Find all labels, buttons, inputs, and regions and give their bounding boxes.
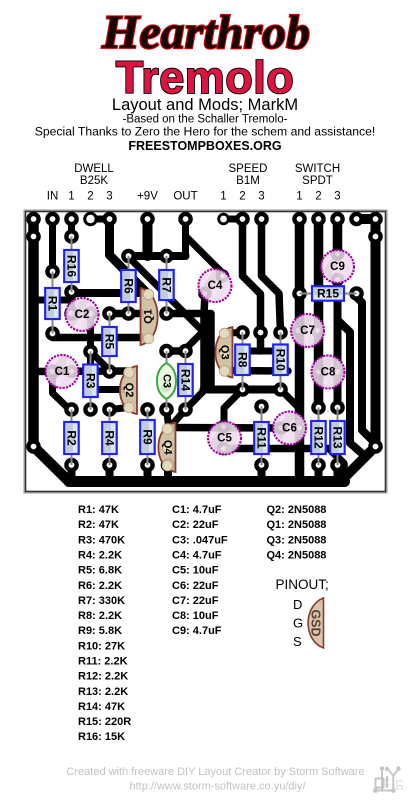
svg-text:SPEED: SPEED: [229, 163, 268, 175]
svg-text:C8: C8: [321, 367, 336, 379]
node R5 top junction pad: [102, 306, 117, 321]
resistor R11: [254, 407, 269, 466]
wire C9 bottom chain: [334, 280, 342, 408]
wire R8 bottom diagonal to C5 top: [224, 390, 243, 425]
svg-text:+9V: +9V: [137, 191, 158, 203]
svg-text:C3: .047uF: C3: .047uF: [172, 534, 228, 546]
node R12 R13 top pads: [311, 400, 326, 415]
transistor Q4: [158, 423, 175, 473]
svg-text:R5: R5: [103, 334, 117, 350]
svg-text:Q3: 2N5088: Q3: 2N5088: [267, 534, 327, 546]
svg-text:C5: C5: [217, 433, 232, 445]
node R6 R7 top pads: [121, 249, 136, 264]
svg-text:1: 1: [296, 191, 302, 203]
svg-text:C1: 4.7uF: C1: 4.7uF: [172, 504, 222, 516]
capacitor C5: [208, 422, 241, 455]
svg-text:C7: C7: [300, 325, 315, 337]
node C4 pads: [216, 269, 230, 283]
svg-text:Layout and Mods; MarkM: Layout and Mods; MarkM: [112, 96, 298, 114]
svg-text:SWITCH: SWITCH: [295, 163, 340, 175]
wire R6 top long diagonal: [129, 257, 204, 332]
wire dwell pads 2-3: [91, 216, 110, 223]
wire OUT down: [182, 219, 189, 256]
svg-text:R3: 470K: R3: 470K: [78, 534, 125, 546]
svg-text:G: G: [293, 616, 303, 631]
wire bottom stub to ground bus: [106, 465, 114, 477]
wire C5 bottom to lower right: [224, 449, 345, 478]
svg-text:FREESTOMPBOXES.ORG: FREESTOMPBOXES.ORG: [128, 139, 281, 153]
svg-text:2: 2: [239, 191, 245, 203]
svg-text:Special Thanks to Zero the Her: Special Thanks to Zero the Hero for the …: [35, 125, 376, 139]
svg-text:Q4: Q4: [162, 440, 174, 456]
wire Q3 bottom under R8 R10: [224, 367, 288, 375]
svg-text:C5: 10uF: C5: 10uF: [172, 565, 219, 577]
wire ground row to C1 Q2: [34, 367, 130, 375]
wire R14 bottom diagonal up: [186, 391, 204, 410]
wire right rail from switch pads: [357, 219, 376, 447]
svg-text:R4: 2.2K: R4: 2.2K: [78, 550, 122, 562]
svg-text:R6: 2.2K: R6: 2.2K: [78, 580, 122, 592]
wire +9V feed: [143, 219, 153, 256]
resistor R15: [300, 286, 357, 301]
svg-text:2: 2: [87, 191, 93, 203]
node row pads at 409: [64, 402, 79, 417]
wire R3 top under box to Q2 mid: [91, 352, 130, 390]
svg-text:Created with freeware DIY Layo: Created with freeware DIY Layout Creator…: [66, 766, 364, 778]
wire R14 bottom to Q4 top: [170, 410, 186, 428]
node C1 pads: [45, 364, 60, 379]
resistor R2: [64, 410, 79, 466]
svg-text:R8: 2.2K: R8: 2.2K: [78, 610, 122, 622]
svg-text:R8: R8: [236, 352, 250, 368]
transistor Q1: [141, 288, 158, 345]
wire C9 jog to lower right: [338, 320, 367, 457]
svg-text:R16: R16: [65, 255, 79, 277]
wire C2 right to R3 top: [87, 314, 94, 352]
wire speed2 down to T junction: [243, 219, 261, 351]
svg-text:2: 2: [315, 191, 321, 203]
svg-text:R11: 2.2K: R11: 2.2K: [78, 656, 128, 668]
svg-text:Q2: Q2: [123, 383, 135, 398]
capacitor C8: [312, 356, 345, 389]
svg-text:R12: 2.2K: R12: 2.2K: [78, 671, 128, 683]
svg-text:R6: R6: [122, 278, 136, 294]
svg-text:R4: R4: [103, 430, 117, 446]
svg-text:Q1: Q1: [143, 309, 155, 324]
resistor R1: [45, 272, 60, 334]
svg-text:C6: 22uF: C6: 22uF: [172, 580, 219, 592]
wire dwell 3 to Q1 top: [110, 219, 148, 294]
svg-text:1: 1: [68, 191, 74, 203]
wire R1 bottom to Q1 bottom: [53, 334, 148, 338]
svg-text:OUT: OUT: [173, 191, 197, 203]
svg-text:Q4: 2N5088: Q4: 2N5088: [267, 550, 327, 562]
svg-text:S: S: [293, 634, 302, 649]
node T junction pad: [253, 325, 268, 340]
wire R10 bottom diagonal: [281, 390, 300, 409]
wire R5top R6bottom Q1mid row: [110, 310, 148, 318]
svg-text:R10: R10: [274, 349, 288, 371]
wire C3top junction diagonal: [186, 332, 204, 350]
svg-text:C1: C1: [55, 366, 70, 378]
wire OUT diagonal to C4: [186, 236, 223, 273]
node R15 pads: [292, 286, 307, 301]
resistor R7: [159, 256, 174, 314]
resistor R14: [178, 351, 193, 410]
resistor R8: [235, 333, 250, 390]
svg-text:C9: C9: [330, 261, 345, 273]
node C9 pads: [331, 247, 345, 261]
node C3 top pad: [159, 344, 174, 359]
wire speed3 to R10 top: [262, 219, 281, 333]
svg-text:GSD: GSD: [309, 609, 323, 636]
capacitor C1: [46, 355, 79, 388]
resistor R9: [140, 410, 155, 466]
node corner pads: [26, 439, 41, 454]
wire R15 right to corner pad: [357, 297, 374, 442]
node R10 top pad: [273, 325, 288, 340]
node C6 pads: [274, 421, 288, 435]
wire Q4 top to C5 to C6: [169, 424, 281, 432]
wire Q4 bottom stub: [164, 465, 172, 477]
svg-text:R1: 47K: R1: 47K: [78, 504, 119, 516]
wire bottom stub to ground bus: [68, 465, 76, 477]
svg-text:PINOUT;: PINOUT;: [276, 577, 329, 592]
wire C4 bottom down: [204, 294, 205, 390]
svg-text:C6: C6: [282, 423, 297, 435]
svg-text:C4: C4: [208, 280, 223, 292]
node R3 top pad: [83, 344, 98, 359]
wire Q3 mid stub: [211, 348, 225, 356]
svg-text:R2: R2: [65, 430, 79, 446]
wire ground bus bottom: [69, 476, 345, 487]
wire bottom stub to ground bus: [334, 465, 342, 477]
wire C3 top to R14 top: [167, 347, 186, 355]
capacitor C3: [157, 351, 176, 410]
resistor R3: [83, 352, 98, 410]
svg-text:1: 1: [220, 191, 226, 203]
wire C3 bottom to Q4 top: [167, 410, 169, 427]
wire R6top-R7top-OUT junction row: [129, 252, 186, 260]
wire switch3 to C9: [333, 219, 343, 254]
capacitor C2: [66, 298, 99, 331]
node R16 bottom pad: [64, 285, 79, 300]
wire speed1-speed2 top: [224, 216, 243, 223]
wire bottom stub to ground bus: [315, 465, 323, 477]
wire rail to R16 bottom junction: [34, 297, 72, 304]
wire Q2 bottom to R4 top: [111, 408, 128, 410]
wire ground rail left: [34, 219, 70, 482]
wire R7 bottom elbow down: [167, 314, 212, 390]
svg-text:R9: 5.8K: R9: 5.8K: [78, 625, 122, 637]
svg-text:3: 3: [258, 191, 264, 203]
wire R16 bottom to C2 left: [68, 292, 75, 314]
svg-text:IN: IN: [47, 191, 59, 203]
wire R8 R10 bottom row: [204, 386, 281, 394]
svg-text:R15: 220R: R15: 220R: [78, 716, 131, 728]
footer DIY logo: [376, 770, 399, 791]
resistor R16: [64, 237, 79, 293]
svg-text:http://www.storm-software.co.y: http://www.storm-software.co.yu/diy/: [129, 781, 306, 793]
node C8 pads: [312, 365, 326, 379]
svg-text:R16: 15K: R16: 15K: [78, 731, 125, 743]
node R7 bottom pad: [159, 306, 174, 321]
svg-text:B1M: B1M: [236, 175, 260, 187]
node R11 top pad: [254, 399, 269, 414]
wire C1 left down to R2: [53, 372, 70, 410]
node bottom row pads: [64, 458, 79, 473]
transistor Q2: [120, 366, 137, 414]
node R6 bottom pad: [121, 306, 136, 321]
transistor Q3: [215, 327, 232, 378]
svg-text:C9: 4.7uF: C9: 4.7uF: [172, 625, 222, 637]
svg-text:R13: 2.2K: R13: 2.2K: [78, 686, 128, 698]
capacitor C4: [199, 269, 232, 302]
wire bottom stub to ground bus: [144, 465, 152, 477]
wire bottom-right diagonal to ground bus: [346, 447, 376, 477]
node C2 pads: [64, 306, 79, 321]
capacitor C9: [321, 250, 354, 283]
PCB board outline: [24, 210, 387, 493]
wire pad1 to R16: [68, 219, 75, 237]
svg-text:LC: LC: [395, 780, 404, 790]
svg-text:R14: R14: [179, 369, 193, 391]
wire bottom stub to ground bus: [258, 465, 266, 477]
capacitor C6: [273, 412, 306, 445]
svg-text:D: D: [293, 597, 302, 612]
svg-text:R9: R9: [141, 429, 155, 445]
wire Q3 top stub: [226, 329, 243, 337]
svg-text:C2: 22uF: C2: 22uF: [172, 519, 219, 531]
wire T bar under R8 R10: [250, 348, 274, 355]
resistor R5: [102, 314, 117, 372]
wire switch2 rail down: [314, 219, 324, 408]
node second row pads: [26, 229, 41, 244]
svg-text:3: 3: [334, 191, 340, 203]
svg-text:R3: R3: [84, 373, 98, 389]
node top connection pads row: [26, 212, 41, 227]
svg-text:R1: R1: [46, 296, 60, 312]
wire IN to R1: [49, 219, 56, 272]
pinout transistor side view: [308, 598, 323, 648]
svg-text:Q3: Q3: [219, 345, 231, 360]
node R5 bottom junction pad: [102, 364, 117, 379]
wire R16 bottom to Q1 top: [72, 289, 148, 297]
svg-text:R13: R13: [331, 426, 345, 448]
node C5 pads: [217, 420, 231, 434]
wire switch1 rail down: [295, 219, 305, 479]
resistor R6: [121, 256, 136, 314]
svg-text:C2: C2: [75, 309, 90, 321]
svg-text:R2: 47K: R2: 47K: [78, 519, 119, 531]
node C7 pads: [291, 323, 306, 338]
node R8 top pad: [235, 325, 250, 340]
svg-text:3: 3: [106, 191, 112, 203]
svg-text:C7: 22uF: C7: 22uF: [172, 595, 219, 607]
node R8 R10 bottom pads: [235, 382, 250, 397]
svg-text:C8: 10uF: C8: 10uF: [172, 610, 219, 622]
svg-text:Q1: 2N5088: Q1: 2N5088: [267, 519, 327, 531]
svg-text:R12: R12: [312, 426, 326, 448]
svg-text:R14: 47K: R14: 47K: [78, 701, 125, 713]
svg-text:R7: 330K: R7: 330K: [78, 595, 125, 607]
resistor R10: [273, 333, 288, 390]
resistor R12: [311, 408, 326, 466]
svg-text:DWELL: DWELL: [74, 163, 114, 175]
svg-text:R5: 6.8K: R5: 6.8K: [78, 565, 122, 577]
svg-text:R7: R7: [160, 277, 174, 293]
capacitor C7: [291, 314, 324, 347]
svg-text:R11: R11: [255, 427, 269, 449]
resistor R13: [330, 408, 345, 466]
svg-text:C4: 4.7uF: C4: 4.7uF: [172, 550, 222, 562]
svg-text:B25K: B25K: [80, 175, 108, 187]
node R14 top pad: [178, 344, 193, 359]
svg-text:R10: 27K: R10: 27K: [78, 640, 125, 652]
svg-text:R15: R15: [317, 287, 339, 301]
resistor R4: [102, 410, 117, 466]
node R1 pads: [45, 264, 60, 279]
svg-text:Q2: 2N5088: Q2: 2N5088: [267, 504, 327, 516]
svg-text:SPDT: SPDT: [302, 175, 333, 187]
svg-text:C3: C3: [161, 374, 173, 388]
wire R3 top to R5 bottom diagonal: [91, 352, 110, 371]
